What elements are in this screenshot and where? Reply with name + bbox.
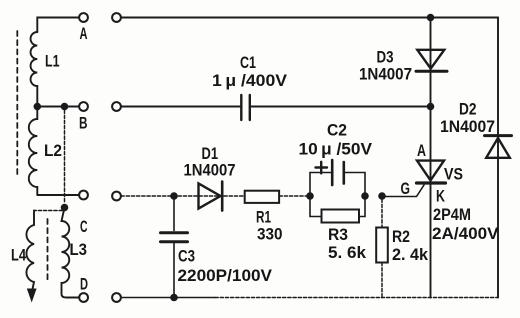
svg-text:2200P/100V: 2200P/100V [178, 266, 273, 285]
transformer core dashed line left [16, 31, 18, 176]
svg-text:1 μ /400V: 1 μ /400V [212, 71, 288, 90]
capacitor C1 [241, 95, 250, 120]
svg-text:R3: R3 [328, 225, 348, 244]
terminal C [79, 191, 88, 200]
svg-text:C1: C1 [240, 53, 256, 72]
svg-text:1N4007: 1N4007 [359, 65, 412, 84]
wire top rail [121, 17, 498, 19]
junction dot top rail [427, 14, 435, 22]
svg-text:2A/400V: 2A/400V [432, 224, 499, 243]
VS gate wire [382, 185, 424, 197]
wire second rail left of C1 [121, 106, 240, 108]
capacitor C2 branch wires [310, 173, 365, 197]
wire bottom rail dashed part [215, 297, 498, 299]
inductor L1 [31, 32, 38, 103]
wire right side down to D2 [497, 18, 499, 298]
terminal second input [112, 102, 121, 111]
svg-text:5. 6k: 5. 6k [328, 243, 367, 262]
terminal D [79, 293, 88, 302]
wire D1 to R1 [224, 195, 245, 197]
svg-text:2. 4k: 2. 4k [392, 245, 429, 264]
svg-text:A: A [417, 141, 426, 160]
junction dot B2 [61, 103, 69, 111]
wire L2 bottom to terminal C [37, 194, 79, 196]
svg-text:1N4007: 1N4007 [440, 117, 495, 136]
resistor R2 wires (dashed scan look) [381, 199, 383, 298]
wire jog to L4 [34, 208, 65, 211]
svg-text:R2: R2 [392, 227, 410, 246]
diode D2 [485, 136, 512, 158]
wire bottom rail solid part [121, 297, 215, 299]
diode D1 [199, 182, 223, 211]
junction dot parallel right [361, 192, 369, 200]
svg-text:L4: L4 [11, 246, 26, 265]
junction dot C3 bottom [170, 294, 178, 302]
junction dot R2 top [378, 192, 386, 200]
terminal bottom input [112, 293, 121, 302]
svg-text:A: A [80, 24, 88, 43]
wire R1 to node (dashed scan look) [279, 195, 310, 197]
junction dot parallel left [306, 192, 314, 200]
wire second rail right of C1 [251, 106, 431, 108]
svg-text:10 μ /50V: 10 μ /50V [299, 140, 373, 159]
junction dot L3/L4 top [61, 204, 69, 212]
terminal third input [112, 192, 121, 201]
svg-text:D2: D2 [459, 100, 477, 119]
resistor R2 [376, 228, 388, 263]
svg-text:D: D [80, 275, 88, 294]
svg-text:G: G [401, 179, 411, 198]
svg-text:K: K [436, 187, 446, 206]
terminal B [79, 102, 88, 111]
inductor L2 [29, 107, 38, 196]
L4 arrow [27, 289, 37, 303]
junction dot B1 [34, 103, 42, 111]
svg-text:330: 330 [257, 225, 283, 244]
capacitor C3 [161, 199, 188, 298]
inductor L3 [62, 208, 80, 298]
svg-text:L3: L3 [70, 240, 88, 259]
diode D3 [416, 18, 447, 104]
resistor R1 [245, 191, 279, 203]
capacitor C2 plates [332, 160, 344, 185]
terminal A [79, 13, 88, 22]
terminal top input [112, 13, 121, 22]
C2 plus sign [316, 162, 328, 174]
inductor L4 [26, 211, 34, 292]
svg-text:C2: C2 [327, 121, 347, 140]
svg-text:L2: L2 [44, 141, 62, 160]
wire third rail to D1 (dashed scan look) [121, 195, 220, 197]
svg-text:C3: C3 [178, 247, 195, 266]
junction dot D3 bottom [427, 103, 435, 111]
wire from node B2 down to L3/L4 (dashed scan look) [64, 110, 66, 203]
svg-text:VS: VS [444, 165, 463, 184]
svg-text:2P4M: 2P4M [433, 205, 471, 224]
svg-text:L1: L1 [45, 52, 60, 71]
wire node B row [37, 106, 79, 108]
svg-text:1N4007: 1N4007 [184, 161, 236, 180]
svg-text:B: B [79, 114, 88, 133]
wire top-left to terminal A [37, 18, 79, 33]
resistor R3 [322, 210, 360, 223]
thyristor VS [417, 107, 446, 298]
junction dot C3 top [170, 192, 178, 200]
svg-text:C: C [80, 217, 88, 236]
transformer core dashed line between L4 and L3 [47, 219, 49, 283]
resistor R3 branch wires [310, 196, 365, 217]
